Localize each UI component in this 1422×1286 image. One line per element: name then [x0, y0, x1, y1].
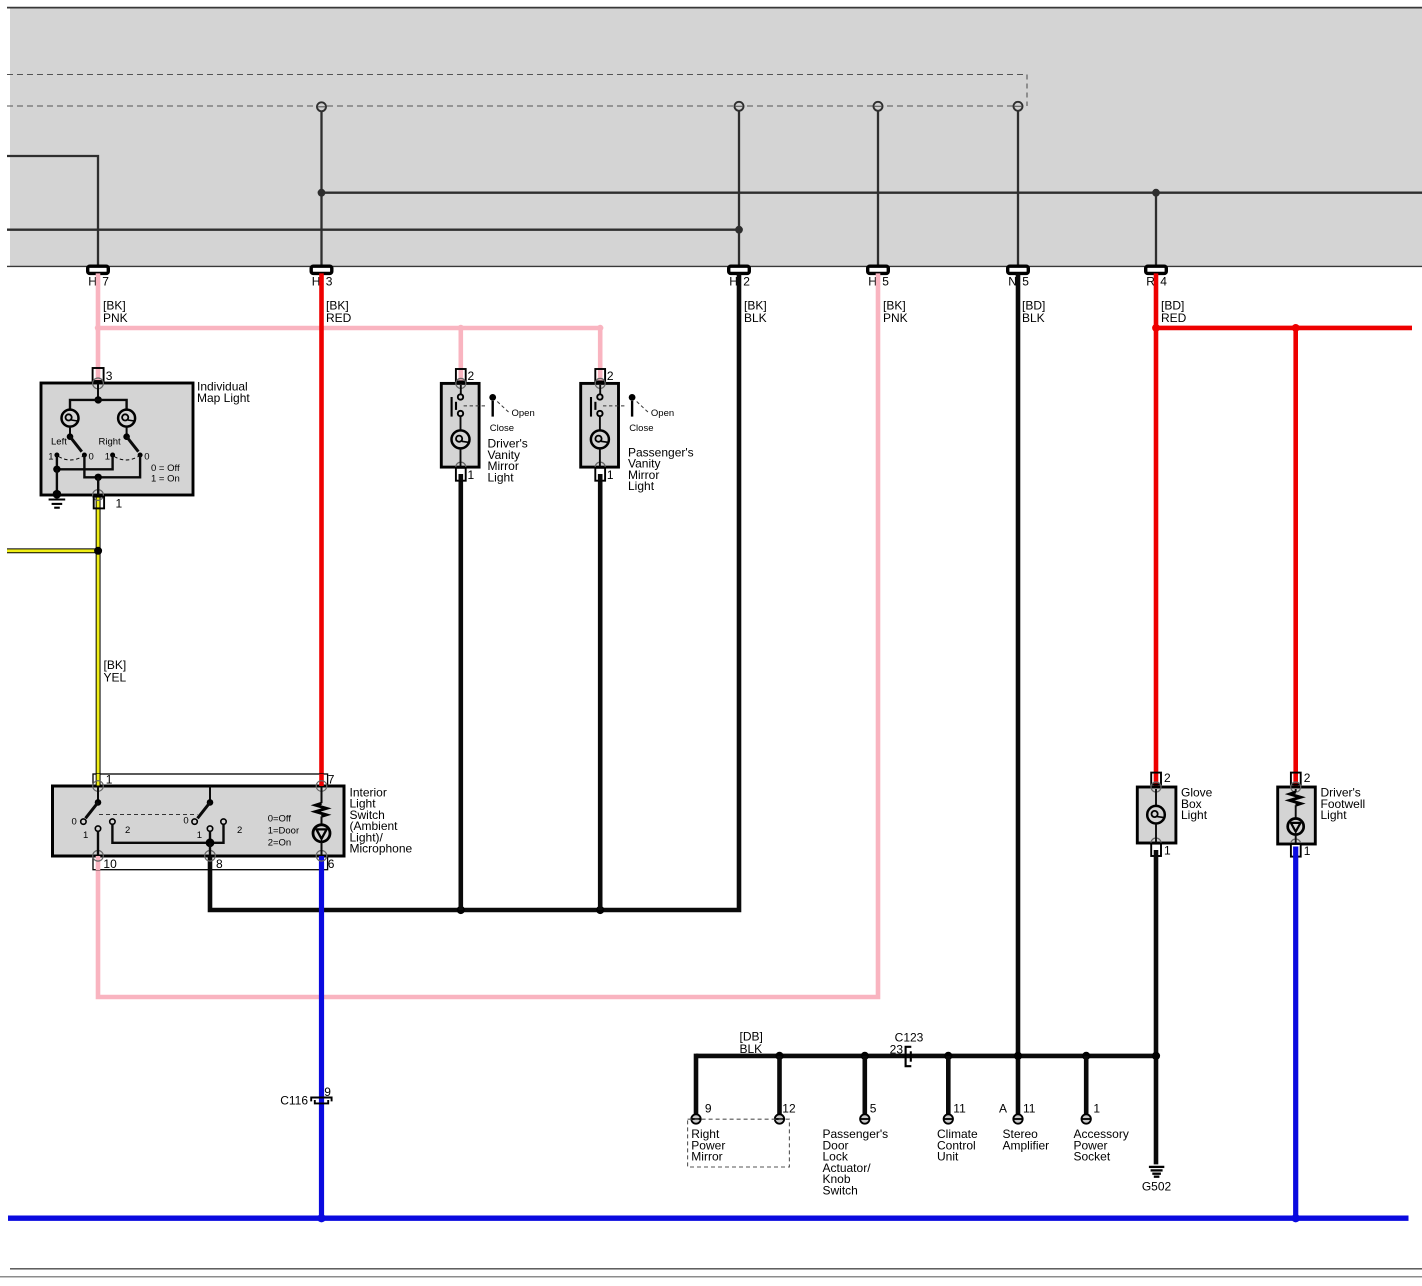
- band bottom border: [7, 265, 1422, 267]
- svg-text:H: H: [312, 274, 321, 288]
- map light pin 1 ring: [93, 490, 104, 501]
- map light pin 3 ring: [93, 378, 104, 389]
- interior switch pin 8 ring: [205, 851, 216, 862]
- map light right switch throw arc: [114, 457, 138, 461]
- wire [BK] RED from H3 to interior switch pin 7: [319, 273, 324, 786]
- interior switch wire node-to-pin8: [209, 843, 211, 856]
- blue wire [BK] BLU pin 6 to blue bus: [319, 856, 324, 1218]
- node yellow junction: [94, 547, 102, 555]
- svg-text:12: 12: [782, 1101, 796, 1115]
- driver vanity door lever knob: [489, 394, 496, 401]
- node glove-wire crossing: [1152, 1052, 1160, 1060]
- svg-text:1: 1: [1164, 843, 1171, 857]
- C123 inline connector symbol: [906, 1047, 912, 1066]
- map light ground stud: [53, 490, 62, 499]
- svg-text:5: 5: [882, 274, 889, 288]
- terminal 9 right power mirror: [691, 1114, 700, 1123]
- map light right switch stem: [126, 427, 128, 437]
- blue ground bus: [8, 1215, 1409, 1220]
- microphone symbol U-mic: [313, 825, 330, 842]
- passenger vanity lid dashed line: [603, 405, 627, 407]
- node H2-y230 junction: [735, 226, 743, 234]
- driver vanity pin 1 connector: [456, 468, 466, 481]
- svg-text:Close: Close: [629, 423, 653, 434]
- svg-text:Unit: Unit: [937, 1150, 959, 1164]
- svg-text:5: 5: [1022, 274, 1029, 288]
- wire stub terminal 1 accessory: [1084, 1056, 1089, 1115]
- node stereo amp drop: [1014, 1052, 1022, 1060]
- svg-text:Open: Open: [651, 408, 674, 419]
- wire R4 feeder vertical: [1155, 193, 1157, 266]
- svg-text:1: 1: [197, 830, 202, 841]
- ground bus bar: [696, 1054, 1156, 1059]
- ground symbol (map light): [49, 498, 66, 500]
- wire [BK] PNK loop H5 to interior switch pin 10: [98, 273, 878, 997]
- node driver vanity on ground bus: [457, 906, 465, 914]
- passenger vanity wire switch-to-lamp: [599, 416, 601, 430]
- driver vanity pin 2 ring: [456, 378, 466, 388]
- terminal 11 stereo amplifier: [1013, 1114, 1022, 1123]
- glove box light pin 2 connector: [1151, 773, 1161, 785]
- interior switch left contact 0: [81, 819, 86, 824]
- ground G502 symbol: [1149, 1166, 1164, 1168]
- footwell light pin 2 connector: [1291, 773, 1301, 785]
- node accessory socket: [1082, 1052, 1090, 1060]
- red branch bus y328: [1156, 326, 1412, 331]
- map light left lamp: [62, 410, 79, 427]
- interior switch right pivot: [207, 799, 214, 806]
- svg-text:H: H: [868, 274, 877, 288]
- svg-text:G502: G502: [1142, 1180, 1172, 1194]
- svg-text:1=Door: 1=Door: [268, 826, 299, 837]
- node R4-y192 junction: [1152, 189, 1160, 197]
- driver vanity open throw dashes: [497, 402, 509, 413]
- driver vanity jamb switch bottom node: [458, 411, 463, 416]
- interior switch left contact 1: [95, 826, 100, 831]
- svg-text:Light: Light: [1181, 808, 1208, 822]
- glove box light pin 1 connector: [1151, 844, 1161, 856]
- interior switch right stem: [209, 786, 211, 802]
- map light right switch pivot: [123, 433, 130, 440]
- pink wire overlay from pin 10: [96, 856, 101, 870]
- wire [BK] YEL outline horizontal: [7, 548, 98, 553]
- wire stub terminal 9: [694, 1054, 699, 1115]
- wire driver vanity pin1 to bus: [458, 474, 463, 910]
- svg-text:C116: C116: [280, 1093, 308, 1107]
- svg-text:PNK: PNK: [103, 311, 128, 325]
- svg-text:Amplifier: Amplifier: [1003, 1138, 1050, 1152]
- glove box light pin 2 ring: [1151, 782, 1161, 792]
- driver vanity lid dashed line: [464, 405, 488, 407]
- wire stub terminal 5: [862, 1056, 867, 1115]
- svg-text:0=Off: 0=Off: [268, 814, 292, 825]
- wire microphone to pin 6: [321, 842, 323, 856]
- svg-text:10: 10: [103, 857, 117, 871]
- interior switch pin 10 ring: [93, 851, 104, 862]
- svg-text:1: 1: [105, 452, 110, 463]
- svg-text:2=On: 2=On: [268, 838, 292, 849]
- svg-text:Light: Light: [1321, 808, 1348, 822]
- svg-text:23: 23: [890, 1043, 904, 1057]
- map light left switch throw arc: [59, 457, 83, 461]
- wire [BK] PNK from H7 to map light pin 3: [96, 273, 101, 383]
- svg-text:1: 1: [607, 468, 614, 482]
- driver vanity door lever bar: [492, 401, 494, 417]
- wire pink drop to passenger vanity pin 2: [598, 328, 603, 383]
- interior switch box: [53, 786, 345, 856]
- map light wire contacts-0 to pin 1: [84, 455, 140, 477]
- svg-text:2: 2: [1304, 771, 1311, 785]
- wire bus y192 to right edge: [322, 192, 1422, 194]
- map light left switch arm: [70, 437, 82, 452]
- svg-text:Left: Left: [51, 437, 67, 448]
- interior switch left arm: [86, 802, 99, 818]
- map light left switch pivot: [67, 433, 74, 440]
- ring terminal above H5: [874, 102, 883, 111]
- svg-text:PNK: PNK: [883, 311, 908, 325]
- wire [BK] YEL core vertical: [97, 498, 100, 786]
- passenger vanity pin 1 ring: [595, 462, 605, 472]
- ring terminal above H2: [735, 102, 744, 111]
- svg-text:BLK: BLK: [1022, 311, 1045, 325]
- svg-text:Switch: Switch: [823, 1183, 858, 1197]
- right power mirror dashed outline: [688, 1119, 790, 1167]
- passenger vanity jamb switch plates: [590, 397, 592, 417]
- red wire overlay into pin 7: [319, 774, 324, 786]
- svg-text:2: 2: [237, 825, 242, 836]
- svg-text:2: 2: [607, 369, 614, 383]
- svg-text:Socket: Socket: [1074, 1150, 1111, 1164]
- svg-text:7: 7: [102, 274, 109, 288]
- dashed harness line upper: [7, 74, 1027, 76]
- interior switch right contact 0: [192, 819, 197, 824]
- red node at footwell tee: [1292, 324, 1300, 332]
- svg-text:RED: RED: [1161, 311, 1187, 325]
- passenger vanity pin 2 ring: [595, 378, 605, 388]
- svg-text:Open: Open: [512, 408, 535, 419]
- driver vanity pin 1 ring: [456, 462, 466, 472]
- driver vanity jamb switch top node: [458, 394, 463, 399]
- svg-text:H: H: [729, 274, 738, 288]
- svg-text:Close: Close: [490, 423, 514, 434]
- wire [BK] YEL core horizontal: [7, 549, 97, 552]
- dashed harness line lower: [7, 105, 1027, 107]
- svg-text:3: 3: [326, 274, 333, 288]
- passenger vanity feed stem: [599, 385, 601, 394]
- driver vanity jamb switch plates: [451, 397, 453, 417]
- pink node at driver vanity tee: [458, 325, 464, 331]
- node t11 climate: [944, 1052, 952, 1060]
- connector R4 body: [1146, 266, 1167, 273]
- passenger vanity jamb switch bottom node: [597, 411, 602, 416]
- interior switch bottom pin strip: [93, 856, 328, 870]
- connector H7 body: [88, 266, 109, 273]
- svg-text:1: 1: [106, 773, 113, 787]
- footwell light feed stem: [1295, 789, 1297, 792]
- svg-text:Map Light: Map Light: [197, 391, 250, 405]
- interior switch right arm: [198, 802, 211, 818]
- svg-text:N: N: [1008, 274, 1017, 288]
- interior switch wire contact1-to-pin10: [97, 831, 99, 856]
- resistor (ambient light): [316, 803, 327, 816]
- interior switch pin 6 ring: [316, 851, 327, 862]
- C116 connector symbol: [311, 1098, 331, 1102]
- svg-text:A: A: [999, 1101, 1007, 1115]
- wire stub terminal 11 climate: [946, 1056, 951, 1115]
- svg-text:5: 5: [870, 1101, 877, 1115]
- passenger vanity open throw dashes: [637, 402, 649, 413]
- pink node at H7 drop: [95, 325, 101, 331]
- footer rule 1: [10, 1268, 1422, 1270]
- passenger vanity lamp: [591, 430, 609, 448]
- passenger vanity black stub pin1: [598, 474, 603, 481]
- connector H3 body: [311, 266, 332, 273]
- wire glove box pin1 to G502: [1154, 850, 1159, 1164]
- wire H3 feeder vertical: [320, 111, 322, 266]
- map light right contact 1: [110, 453, 115, 458]
- wire N5 feeder vertical: [1017, 111, 1019, 266]
- glove box light lamp: [1147, 806, 1165, 824]
- interior switch pin 1 ring: [93, 781, 104, 792]
- svg-text:0: 0: [183, 816, 188, 827]
- interior switch feed to resistor: [321, 786, 323, 803]
- wire stub terminal 12: [777, 1056, 782, 1115]
- passenger vanity door lever knob: [629, 394, 636, 401]
- svg-text:11: 11: [1023, 1101, 1036, 1115]
- wire H7 feeder: [7, 156, 98, 266]
- footwell light box: [1278, 787, 1316, 844]
- svg-text:BLK: BLK: [744, 311, 767, 325]
- footwell light wire resistor-to-lamp: [1295, 805, 1297, 818]
- node t5: [861, 1052, 869, 1060]
- node passenger vanity on ground bus: [596, 906, 604, 914]
- wire pink drop to driver vanity pin 2: [458, 328, 463, 383]
- individual map light box: [41, 383, 193, 495]
- map light node above pin 1: [95, 474, 102, 481]
- yellow wire overlay into pin 1: [96, 774, 101, 786]
- svg-text:1: 1: [116, 497, 123, 511]
- svg-text:9: 9: [705, 1101, 712, 1115]
- svg-text:11: 11: [953, 1101, 966, 1115]
- pink branch bus y328: [98, 326, 600, 331]
- map light wire contacts-1 to ground: [57, 455, 113, 469]
- map light left contact 0: [82, 453, 87, 458]
- map light right switch arm: [127, 437, 139, 452]
- wire red drop to footwell light pin 2: [1293, 328, 1298, 787]
- footer rule 2: [0, 1276, 1422, 1278]
- wire H5 feeder vertical: [877, 111, 879, 266]
- interior switch right contact 1: [207, 826, 212, 831]
- passenger vanity wire lamp-to-pin1: [599, 448, 601, 467]
- svg-text:2: 2: [743, 274, 750, 288]
- glove box light feed stem: [1155, 789, 1157, 806]
- map light wire ground drop: [56, 469, 58, 494]
- svg-text:YEL: YEL: [104, 671, 127, 685]
- map light pin 3 connector: [93, 368, 104, 381]
- map light right lamp: [118, 410, 135, 427]
- svg-text:Mirror: Mirror: [691, 1150, 722, 1164]
- svg-text:4: 4: [1160, 274, 1167, 288]
- svg-text:1: 1: [1093, 1101, 1100, 1115]
- svg-text:2: 2: [468, 369, 475, 383]
- terminal 5 passenger door lock: [860, 1114, 869, 1123]
- map light pin 1 connector: [94, 497, 104, 509]
- map light left contact 1: [54, 453, 59, 458]
- interior switch gang dashed link: [99, 814, 197, 816]
- terminal 1 accessory socket: [1082, 1114, 1091, 1123]
- svg-text:1: 1: [83, 830, 88, 841]
- map light node on ground link: [53, 466, 60, 473]
- ring terminal above N5: [1014, 102, 1023, 111]
- interior switch pin 7 ring: [316, 781, 327, 792]
- driver vanity wire lamp-to-pin1: [460, 448, 462, 467]
- svg-text:RED: RED: [326, 311, 352, 325]
- wire passenger vanity pin1 to bus: [598, 474, 603, 910]
- svg-text:0: 0: [144, 452, 149, 463]
- black wire overlay from pin 8: [208, 856, 213, 870]
- map light internal feed: [97, 383, 99, 400]
- wire [BK] BLK from H2 to vanity ground bus: [210, 273, 739, 910]
- svg-text:H: H: [88, 274, 97, 288]
- driver vanity lamp: [452, 430, 470, 448]
- svg-text:Light: Light: [488, 470, 515, 484]
- interior switch wire contacts-2 link: [112, 824, 223, 843]
- footwell light pin 2 ring: [1291, 782, 1301, 792]
- connector H2 body: [729, 266, 750, 273]
- map light right contact 0: [138, 453, 143, 458]
- svg-text:Right: Right: [99, 437, 122, 448]
- footwell light pin 1 ring: [1291, 839, 1301, 849]
- passenger vanity pin 2 connector: [595, 369, 605, 381]
- svg-text:0: 0: [72, 817, 77, 828]
- interior switch right contact 2: [221, 819, 226, 824]
- footwell light resistor: [1290, 792, 1301, 805]
- passenger vanity door lever bar: [631, 401, 633, 417]
- band top border: [7, 7, 1422, 9]
- footwell light wire lamp-to-pin1: [1295, 835, 1297, 845]
- svg-text:Light: Light: [628, 479, 655, 493]
- map light lamp header wire: [70, 400, 127, 410]
- terminal 11 climate control: [944, 1114, 953, 1123]
- wire [BK] YEL outline vertical: [96, 497, 101, 786]
- connector H5 body: [868, 266, 889, 273]
- interior switch top pin strip: [93, 774, 328, 786]
- passenger vanity pin 1 connector: [595, 468, 605, 481]
- glove box light pin 1 ring: [1151, 838, 1161, 848]
- harness band background: [10, 8, 1422, 266]
- svg-text:Microphone: Microphone: [350, 842, 413, 856]
- map light left switch stem: [69, 427, 71, 437]
- svg-text:2: 2: [1164, 771, 1171, 785]
- svg-text:1: 1: [1304, 844, 1311, 858]
- svg-text:7: 7: [328, 773, 335, 787]
- glove box light box: [1137, 787, 1176, 843]
- footwell light LED lamp: [1288, 819, 1304, 835]
- driver vanity black stub pin1: [458, 474, 463, 481]
- svg-text:1: 1: [468, 468, 475, 482]
- pink node at passenger vanity corner: [597, 325, 603, 331]
- svg-text:2: 2: [125, 825, 130, 836]
- interior switch left contact 2: [110, 819, 115, 824]
- svg-text:1 = On: 1 = On: [151, 473, 180, 484]
- driver vanity pin 2 connector: [456, 369, 466, 381]
- driver vanity box: [441, 383, 479, 467]
- node on H3 feeder: [318, 189, 326, 197]
- interior switch node at pin 8: [206, 838, 215, 847]
- wire resistor to microphone: [321, 816, 323, 824]
- wire [BD] RED from R4 down to glove box light: [1154, 273, 1159, 787]
- dashed harness corner vertical: [1026, 75, 1028, 107]
- driver vanity wire switch-to-lamp: [460, 416, 462, 430]
- footwell light pin 1 connector: [1291, 844, 1301, 857]
- wire bus y230: [7, 229, 739, 231]
- glove box light wire lamp-to-pin1: [1155, 824, 1157, 844]
- svg-text:8: 8: [216, 857, 223, 871]
- interior switch left stem: [97, 786, 99, 802]
- wire [BD] BLK from N5 to stereo amplifier terminal: [1016, 273, 1021, 1114]
- node footwell blue junction: [1292, 1214, 1300, 1222]
- wire H2 feeder vertical: [738, 111, 740, 266]
- map light wire to pin 1: [97, 477, 99, 495]
- passenger vanity box: [581, 383, 619, 467]
- map light internal node: [95, 396, 102, 403]
- interior switch wire right contact1 drop: [209, 831, 211, 843]
- driver vanity feed stem: [460, 385, 462, 394]
- wire [BD] BLU footwell pin1 to blue bus: [1293, 847, 1298, 1219]
- ring terminal above H3: [317, 102, 326, 111]
- svg-text:1: 1: [48, 452, 53, 463]
- terminal 12 right power mirror: [775, 1114, 784, 1123]
- svg-text:0: 0: [89, 452, 94, 463]
- red node at R4 drop: [1152, 324, 1160, 332]
- svg-text:3: 3: [106, 369, 113, 383]
- connector N5 body: [1008, 266, 1029, 273]
- passenger vanity jamb switch top node: [597, 394, 602, 399]
- node interior-switch blue junction: [317, 1214, 325, 1222]
- svg-text:6: 6: [328, 857, 335, 871]
- interior switch left pivot: [95, 799, 102, 806]
- node t12: [775, 1052, 783, 1060]
